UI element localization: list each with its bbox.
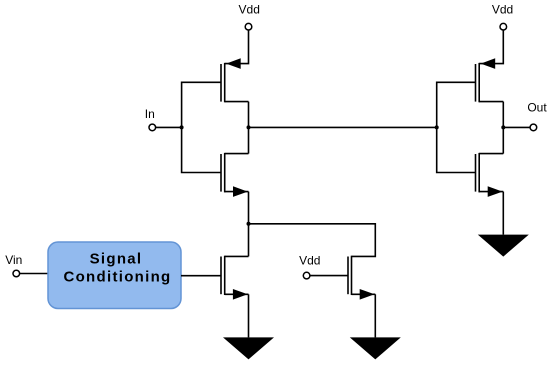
svg-text:In: In [145, 107, 155, 121]
ground (below M5) [350, 337, 401, 359]
junction node A [247, 222, 251, 226]
ground (below M4) [223, 337, 274, 359]
wire M6 source to ground [502, 192, 504, 235]
svg-text:Vdd: Vdd [239, 3, 260, 17]
wire node A to M5 drain [249, 224, 376, 257]
terminal Vdd (stage 1) [245, 23, 252, 30]
junction stage-2 output node [501, 125, 505, 129]
gate bus stage 1 [182, 82, 221, 172]
svg-text:Vdd: Vdd [492, 3, 513, 17]
block Signal Conditioning [48, 242, 181, 309]
svg-text:Vdd: Vdd [299, 253, 320, 267]
wire to Out terminal [503, 126, 530, 128]
wire M4 source to ground [248, 294, 250, 337]
junction stage-1 output node [247, 125, 251, 129]
wire M2 source down to node A [248, 192, 250, 257]
terminal In [149, 124, 156, 131]
transistor M3 PMOS (stage 2) [476, 58, 504, 102]
transistor M6 NMOS (stage 2) [476, 153, 504, 197]
svg-text:Out: Out [527, 100, 547, 114]
transistor M1 PMOS (stage 1) [221, 58, 249, 102]
wire M5 source to ground [374, 294, 376, 337]
transistor M5 NMOS (bias) [348, 256, 375, 300]
wire Vdd stem to M1 source [225, 30, 249, 64]
junction output rail / stage-2 gate bus [435, 125, 439, 129]
wire Vdd terminal to M5 gate [310, 275, 348, 277]
svg-text:Vin: Vin [5, 253, 22, 267]
terminal Vdd (middle) [303, 272, 310, 279]
terminal Vdd (stage 2) [500, 23, 507, 30]
terminal Vin [13, 270, 20, 277]
wire block to M4 gate [181, 275, 221, 277]
svg-text:Signal: Signal [90, 250, 143, 267]
ground (below M6) [478, 235, 529, 257]
wire M1 drain / M2 drain vertical [248, 102, 250, 154]
wire In to gate bus [156, 126, 182, 128]
wire output rail stage1 to stage2 [249, 126, 437, 128]
wire Vin to block [20, 273, 48, 275]
junction In/gate bus [180, 125, 184, 129]
terminal Out [530, 124, 537, 131]
transistor M2 NMOS (stage 1) [221, 153, 249, 197]
wire M3 drain / M6 drain vertical [502, 102, 504, 154]
svg-text:Conditioning: Conditioning [63, 269, 171, 286]
wire Vdd stem to M3 source [479, 30, 503, 64]
transistor M4 NMOS (signal conditioning switch) [221, 256, 249, 300]
gate bus stage 2 [437, 82, 476, 172]
